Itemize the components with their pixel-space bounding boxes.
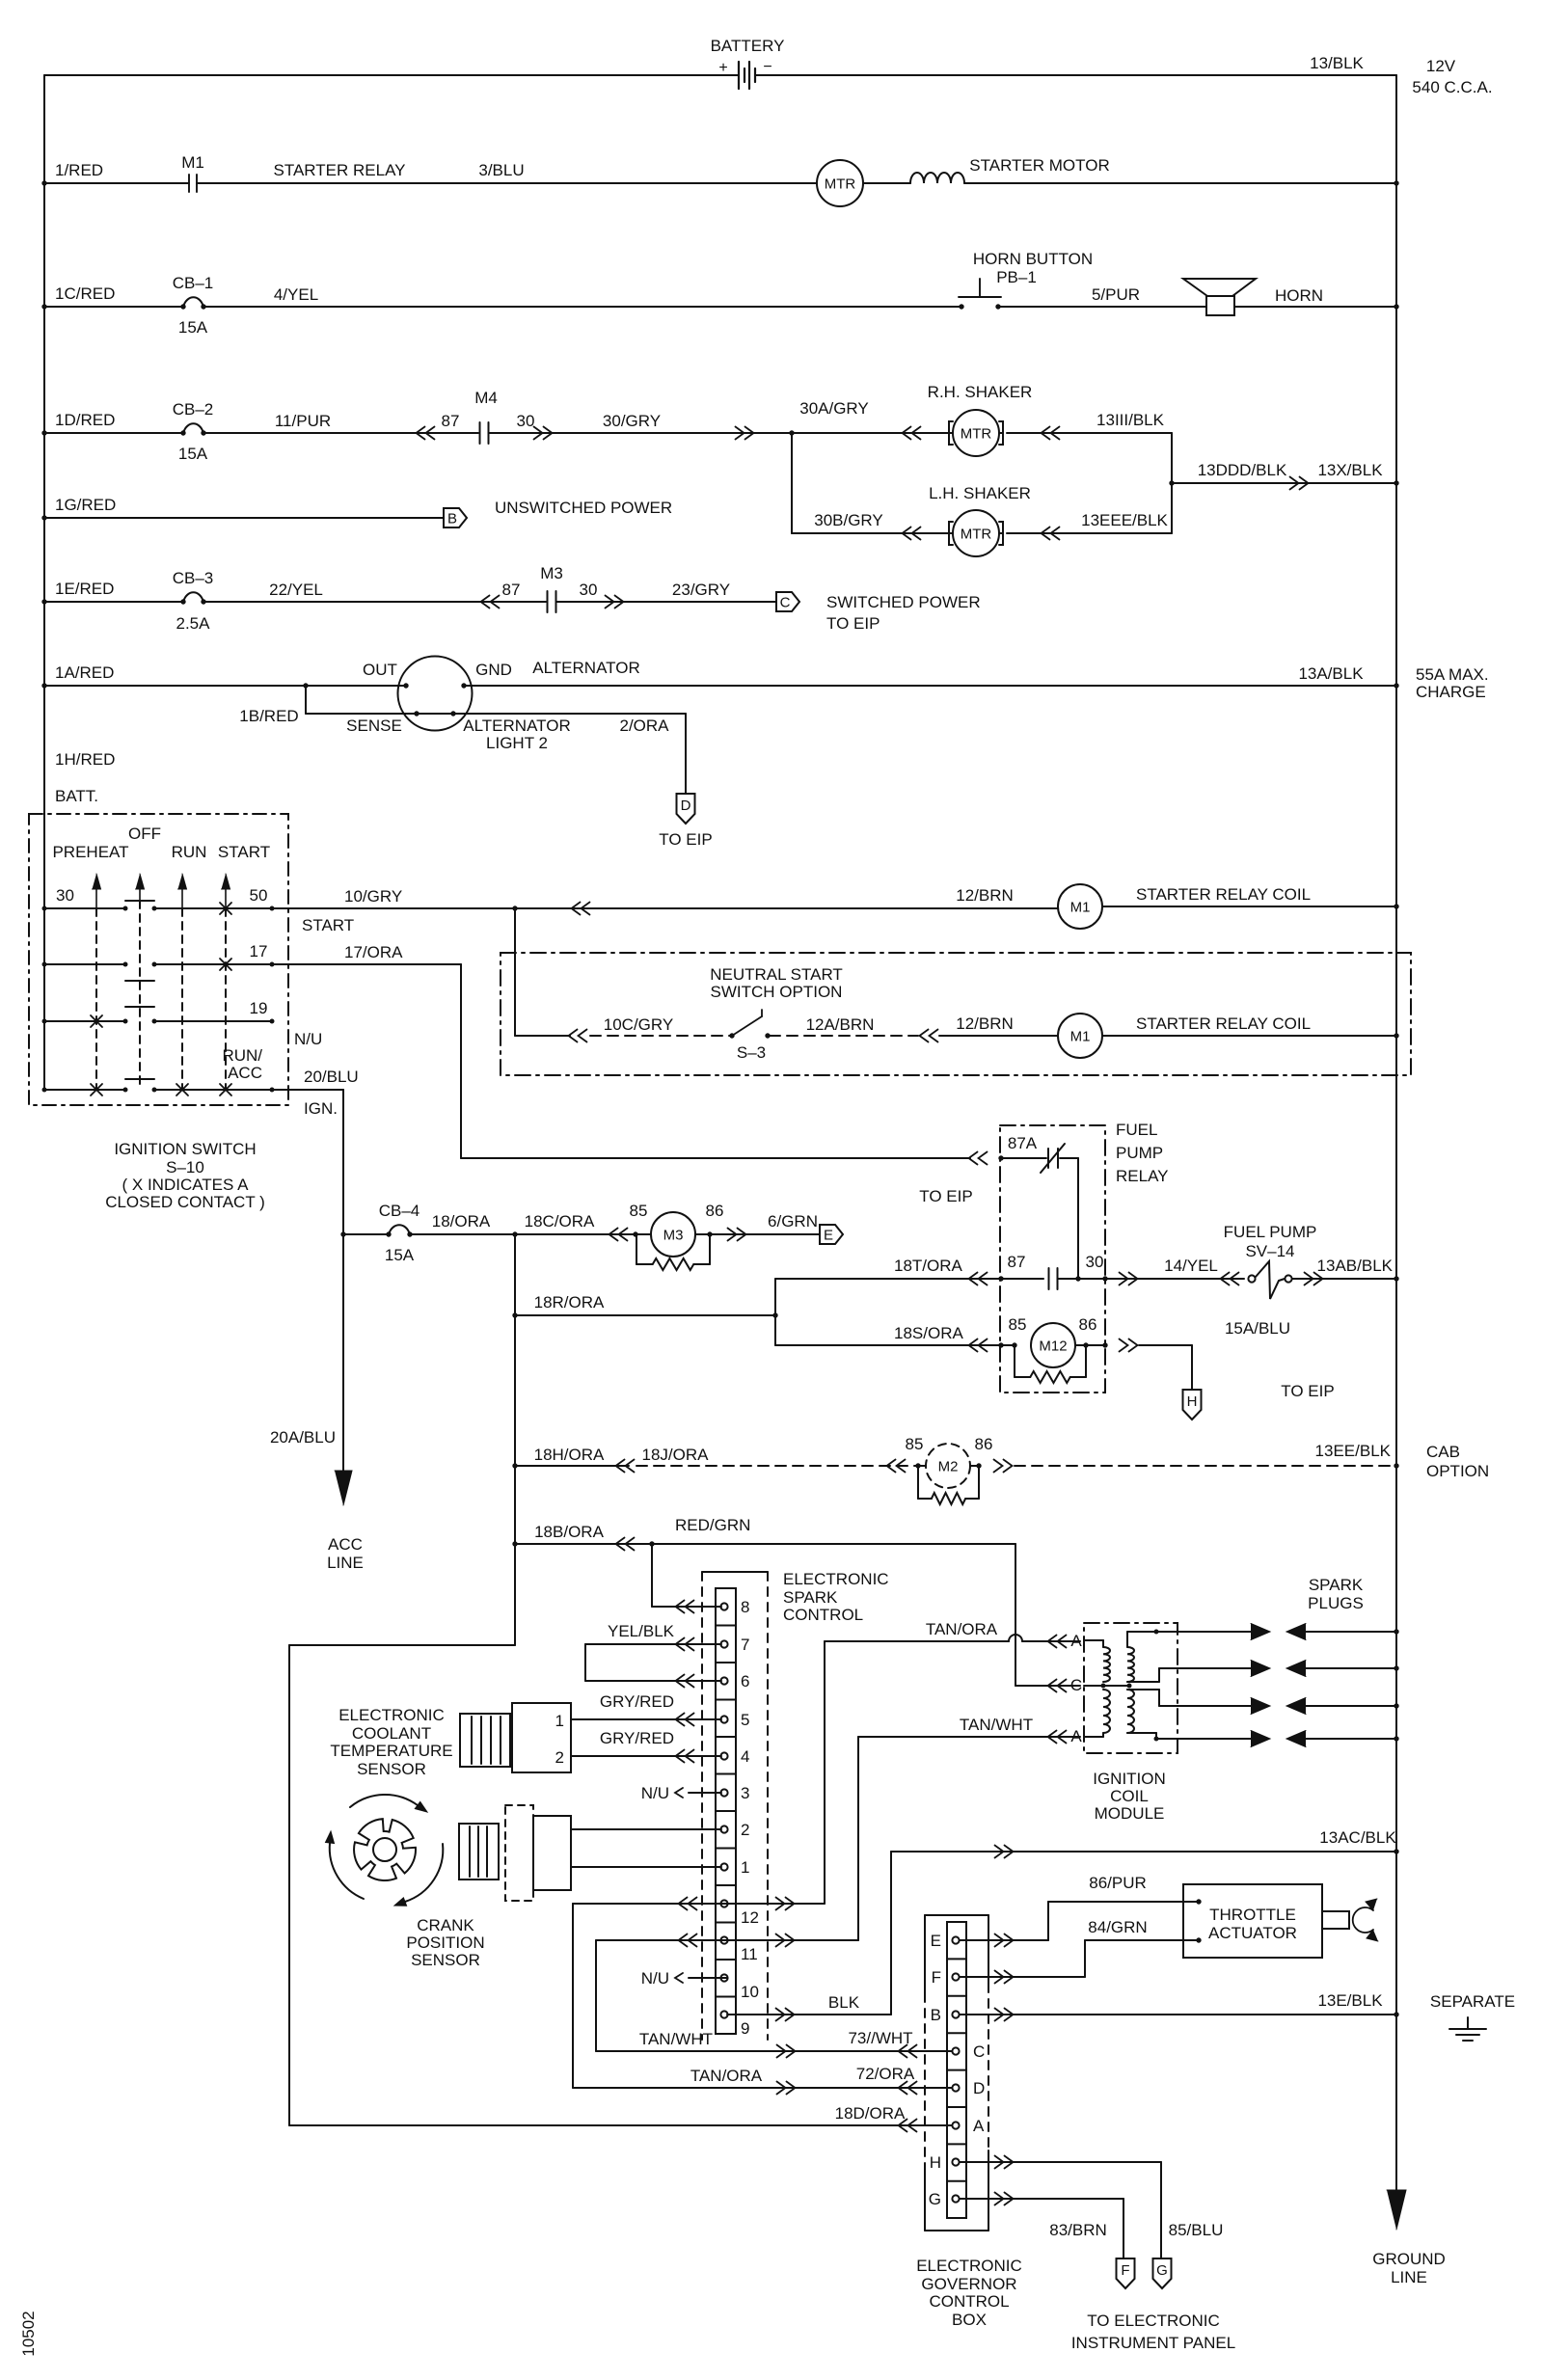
svg-text:ACC: ACC <box>328 1535 363 1554</box>
svg-text:OFF: OFF <box>128 825 161 843</box>
svg-text:D: D <box>681 798 691 814</box>
svg-text:M1: M1 <box>181 153 204 172</box>
svg-text:FUEL PUMP: FUEL PUMP <box>1224 1223 1317 1241</box>
svg-text:CB–1: CB–1 <box>173 274 214 292</box>
svg-text:M12: M12 <box>1039 1339 1067 1355</box>
svg-text:E: E <box>824 1228 833 1244</box>
svg-text:1: 1 <box>741 1858 749 1877</box>
svg-text:CLOSED CONTACT ): CLOSED CONTACT ) <box>105 1193 265 1211</box>
svg-text:H: H <box>930 2153 941 2172</box>
svg-text:13III/BLK: 13III/BLK <box>1096 411 1165 429</box>
svg-text:MTR: MTR <box>961 426 992 443</box>
svg-text:4/YEL: 4/YEL <box>274 285 318 304</box>
svg-text:14/YEL: 14/YEL <box>1164 1257 1218 1275</box>
svg-text:TO EIP: TO EIP <box>826 614 880 633</box>
svg-text:ALTERNATOR: ALTERNATOR <box>532 659 639 677</box>
svg-text:TAN/ORA: TAN/ORA <box>690 2067 763 2085</box>
svg-text:13EE/BLK: 13EE/BLK <box>1315 1442 1392 1460</box>
svg-text:UNSWITCHED POWER: UNSWITCHED POWER <box>495 499 672 517</box>
svg-text:N/U: N/U <box>294 1030 322 1048</box>
svg-text:M3: M3 <box>540 564 563 582</box>
svg-text:OUT: OUT <box>363 661 397 679</box>
svg-text:30: 30 <box>517 412 535 430</box>
svg-text:STARTER RELAY COIL: STARTER RELAY COIL <box>1136 885 1311 904</box>
svg-text:1E/RED: 1E/RED <box>55 580 114 598</box>
svg-text:55A MAX.: 55A MAX. <box>1416 665 1489 684</box>
svg-text:18J/ORA: 18J/ORA <box>642 1446 710 1464</box>
svg-text:22/YEL: 22/YEL <box>269 581 323 599</box>
svg-text:13X/BLK: 13X/BLK <box>1317 461 1383 479</box>
svg-text:18T/ORA: 18T/ORA <box>894 1257 963 1275</box>
svg-text:ACC: ACC <box>228 1064 262 1082</box>
svg-text:20/BLU: 20/BLU <box>304 1068 359 1086</box>
svg-text:TO EIP: TO EIP <box>1281 1382 1334 1400</box>
svg-text:A: A <box>1070 1632 1082 1650</box>
svg-text:BATT.: BATT. <box>55 787 98 805</box>
svg-text:87: 87 <box>442 412 460 430</box>
svg-text:1B/RED: 1B/RED <box>239 707 298 725</box>
svg-text:86: 86 <box>1079 1315 1097 1334</box>
svg-text:SWITCHED POWER: SWITCHED POWER <box>826 593 981 611</box>
svg-text:11/PUR: 11/PUR <box>275 412 331 430</box>
svg-text:18/ORA: 18/ORA <box>432 1212 491 1231</box>
svg-text:SPARK: SPARK <box>783 1588 838 1607</box>
svg-text:30: 30 <box>56 886 74 905</box>
svg-text:PUMP: PUMP <box>1116 1144 1163 1162</box>
svg-text:12: 12 <box>741 1908 759 1927</box>
svg-text:RUN: RUN <box>172 843 207 861</box>
svg-text:73//WHT: 73//WHT <box>848 2029 912 2047</box>
svg-text:E: E <box>931 1932 941 1950</box>
svg-text:BOX: BOX <box>952 2311 987 2329</box>
svg-text:G: G <box>929 2190 941 2208</box>
svg-text:IGNITION: IGNITION <box>1093 1770 1166 1788</box>
svg-text:TO EIP: TO EIP <box>659 830 712 849</box>
svg-text:10/GRY: 10/GRY <box>344 887 402 906</box>
svg-text:18C/ORA: 18C/ORA <box>525 1212 595 1231</box>
svg-text:M3: M3 <box>663 1228 684 1244</box>
svg-text:F: F <box>932 1968 941 1987</box>
svg-text:M2: M2 <box>938 1459 959 1475</box>
svg-text:7: 7 <box>741 1636 749 1654</box>
svg-text:86: 86 <box>975 1435 993 1453</box>
svg-text:3: 3 <box>741 1784 749 1802</box>
svg-text:YEL/BLK: YEL/BLK <box>608 1622 675 1640</box>
svg-text:TO ELECTRONIC: TO ELECTRONIC <box>1087 2312 1220 2330</box>
svg-text:POSITION: POSITION <box>406 1934 484 1952</box>
svg-text:1G/RED: 1G/RED <box>55 496 116 514</box>
svg-text:LINE: LINE <box>1391 2268 1427 2286</box>
svg-text:−: − <box>763 59 771 75</box>
svg-text:N/U: N/U <box>641 1784 669 1802</box>
svg-text:1D/RED: 1D/RED <box>55 411 115 429</box>
svg-text:GRY/RED: GRY/RED <box>600 1692 674 1711</box>
svg-text:30: 30 <box>580 581 598 599</box>
svg-text:SEPARATE: SEPARATE <box>1430 1992 1515 2011</box>
svg-text:1A/RED: 1A/RED <box>55 663 114 682</box>
svg-text:17: 17 <box>250 942 268 960</box>
svg-text:CB–3: CB–3 <box>173 569 214 587</box>
svg-text:+: + <box>718 60 727 76</box>
svg-text:PLUGS: PLUGS <box>1308 1594 1364 1612</box>
svg-text:ALTERNATOR: ALTERNATOR <box>463 717 570 735</box>
svg-text:C: C <box>973 2042 985 2061</box>
svg-text:2.5A: 2.5A <box>176 614 211 633</box>
svg-text:540 C.C.A.: 540 C.C.A. <box>1412 78 1492 96</box>
svg-text:C: C <box>780 595 791 611</box>
svg-text:13AB/BLK: 13AB/BLK <box>1317 1257 1394 1275</box>
svg-text:1/RED: 1/RED <box>55 161 103 179</box>
svg-text:15A: 15A <box>178 445 208 463</box>
svg-text:10502: 10502 <box>19 2311 38 2356</box>
svg-text:SENSOR: SENSOR <box>411 1951 480 1969</box>
svg-text:18D/ORA: 18D/ORA <box>835 2104 906 2123</box>
svg-text:PB–1: PB–1 <box>996 268 1037 286</box>
svg-text:85: 85 <box>906 1435 924 1453</box>
svg-text:IGNITION SWITCH: IGNITION SWITCH <box>114 1140 256 1158</box>
svg-text:COIL: COIL <box>1110 1787 1149 1805</box>
svg-text:6: 6 <box>741 1672 749 1690</box>
svg-text:13/BLK: 13/BLK <box>1310 54 1364 72</box>
svg-text:F: F <box>1121 2262 1129 2279</box>
svg-text:TAN/WHT: TAN/WHT <box>639 2030 713 2048</box>
svg-text:SPARK: SPARK <box>1309 1576 1364 1594</box>
svg-text:1H/RED: 1H/RED <box>55 750 115 769</box>
svg-text:18B/ORA: 18B/ORA <box>534 1523 604 1541</box>
svg-text:M4: M4 <box>474 389 498 407</box>
svg-text:20A/BLU: 20A/BLU <box>270 1428 336 1447</box>
svg-text:17/ORA: 17/ORA <box>344 943 403 961</box>
svg-text:12V: 12V <box>1426 57 1456 75</box>
svg-text:C: C <box>1070 1676 1082 1694</box>
svg-text:5: 5 <box>741 1711 749 1729</box>
svg-text:CONTROL: CONTROL <box>783 1606 863 1624</box>
svg-text:3/BLU: 3/BLU <box>478 161 524 179</box>
svg-text:LIGHT 2: LIGHT 2 <box>486 734 548 752</box>
svg-text:18S/ORA: 18S/ORA <box>894 1324 963 1342</box>
svg-text:A: A <box>973 2117 985 2135</box>
svg-text:L.H. SHAKER: L.H. SHAKER <box>929 484 1031 502</box>
svg-text:CB–2: CB–2 <box>173 400 214 419</box>
svg-text:START: START <box>302 916 354 934</box>
svg-text:CRANK: CRANK <box>417 1916 474 1934</box>
svg-text:M1: M1 <box>1070 900 1091 916</box>
svg-text:STARTER MOTOR: STARTER MOTOR <box>969 156 1109 175</box>
svg-text:D: D <box>973 2079 985 2097</box>
svg-text:THROTTLE: THROTTLE <box>1209 1906 1296 1924</box>
svg-text:SENSE: SENSE <box>346 717 402 735</box>
svg-text:12A/BRN: 12A/BRN <box>806 1015 875 1034</box>
svg-text:50: 50 <box>250 886 268 905</box>
svg-text:STARTER RELAY: STARTER RELAY <box>274 161 406 179</box>
svg-text:GROUND: GROUND <box>1372 2250 1446 2268</box>
svg-text:A: A <box>1070 1727 1082 1745</box>
svg-text:CONTROL: CONTROL <box>929 2292 1009 2311</box>
svg-text:OPTION: OPTION <box>1426 1462 1489 1480</box>
svg-text:2: 2 <box>741 1821 749 1839</box>
svg-text:S–3: S–3 <box>737 1043 766 1062</box>
svg-text:1: 1 <box>555 1712 564 1730</box>
svg-text:LINE: LINE <box>327 1554 364 1572</box>
svg-text:13AC/BLK: 13AC/BLK <box>1319 1828 1396 1847</box>
svg-text:H: H <box>1187 1393 1198 1410</box>
svg-text:18H/ORA: 18H/ORA <box>534 1446 605 1464</box>
svg-text:2/ORA: 2/ORA <box>619 717 669 735</box>
svg-text:BLK: BLK <box>828 1993 860 2012</box>
svg-text:11: 11 <box>741 1945 758 1963</box>
svg-text:ELECTRONIC: ELECTRONIC <box>916 2257 1022 2275</box>
svg-text:MTR: MTR <box>825 176 856 193</box>
svg-text:87: 87 <box>502 581 521 599</box>
svg-text:87: 87 <box>1008 1253 1026 1271</box>
svg-text:1C/RED: 1C/RED <box>55 284 115 303</box>
svg-text:IGN.: IGN. <box>304 1099 338 1118</box>
svg-text:2: 2 <box>555 1748 564 1767</box>
svg-text:19: 19 <box>250 999 268 1017</box>
svg-text:GOVERNOR: GOVERNOR <box>921 2275 1016 2293</box>
svg-text:G: G <box>1156 2262 1168 2279</box>
svg-text:13DDD/BLK: 13DDD/BLK <box>1198 461 1287 479</box>
svg-text:GRY/RED: GRY/RED <box>600 1729 674 1747</box>
svg-text:BATTERY: BATTERY <box>711 37 785 55</box>
svg-text:72/ORA: 72/ORA <box>856 2065 915 2083</box>
svg-text:ELECTRONIC: ELECTRONIC <box>783 1570 889 1588</box>
svg-text:15A: 15A <box>178 318 208 337</box>
svg-text:COOLANT: COOLANT <box>352 1724 431 1743</box>
svg-text:START: START <box>218 843 270 861</box>
svg-text:23/GRY: 23/GRY <box>672 581 730 599</box>
svg-text:13E/BLK: 13E/BLK <box>1317 1991 1383 2010</box>
svg-text:5/PUR: 5/PUR <box>1092 285 1140 304</box>
svg-text:HORN: HORN <box>1275 286 1323 305</box>
svg-text:12/BRN: 12/BRN <box>956 886 1014 905</box>
svg-text:86: 86 <box>706 1202 724 1220</box>
svg-text:87A: 87A <box>1008 1134 1038 1152</box>
svg-text:SWITCH OPTION: SWITCH OPTION <box>711 983 843 1001</box>
svg-text:30: 30 <box>1086 1253 1104 1271</box>
svg-text:HORN BUTTON: HORN BUTTON <box>973 250 1093 268</box>
svg-text:M1: M1 <box>1070 1029 1091 1045</box>
svg-text:N/U: N/U <box>641 1969 669 1988</box>
svg-text:15A/BLU: 15A/BLU <box>1225 1319 1290 1338</box>
svg-text:13EEE/BLK: 13EEE/BLK <box>1081 511 1168 529</box>
svg-text:CB–4: CB–4 <box>379 1202 420 1220</box>
svg-text:18R/ORA: 18R/ORA <box>534 1293 605 1312</box>
svg-text:86/PUR: 86/PUR <box>1089 1874 1147 1892</box>
svg-text:TAN/WHT: TAN/WHT <box>960 1716 1033 1734</box>
svg-text:SENSOR: SENSOR <box>357 1760 426 1778</box>
svg-text:CAB: CAB <box>1426 1443 1460 1461</box>
svg-text:FUEL: FUEL <box>1116 1121 1157 1139</box>
svg-text:85: 85 <box>630 1202 648 1220</box>
svg-text:NEUTRAL START: NEUTRAL START <box>710 965 843 984</box>
svg-text:STARTER RELAY COIL: STARTER RELAY COIL <box>1136 1014 1311 1033</box>
svg-text:GND: GND <box>475 661 512 679</box>
svg-text:ACTUATOR: ACTUATOR <box>1208 1924 1297 1942</box>
svg-text:R.H. SHAKER: R.H. SHAKER <box>928 383 1033 401</box>
svg-text:S–10: S–10 <box>166 1158 204 1176</box>
svg-text:83/BRN: 83/BRN <box>1049 2221 1107 2239</box>
svg-text:SV–14: SV–14 <box>1245 1242 1294 1260</box>
svg-text:TEMPERATURE: TEMPERATURE <box>330 1742 452 1760</box>
svg-text:8: 8 <box>741 1598 749 1616</box>
svg-text:30/GRY: 30/GRY <box>603 412 661 430</box>
svg-text:( X INDICATES A: ( X INDICATES A <box>122 1176 250 1194</box>
svg-text:INSTRUMENT PANEL: INSTRUMENT PANEL <box>1071 2334 1235 2352</box>
svg-text:85: 85 <box>1009 1315 1027 1334</box>
svg-text:4: 4 <box>741 1747 749 1766</box>
svg-text:B: B <box>931 2006 941 2024</box>
svg-text:10: 10 <box>741 1983 759 2001</box>
svg-text:ELECTRONIC: ELECTRONIC <box>338 1706 445 1724</box>
svg-text:TAN/ORA: TAN/ORA <box>926 1620 998 1638</box>
svg-text:RED/GRN: RED/GRN <box>675 1516 750 1534</box>
svg-text:10C/GRY: 10C/GRY <box>604 1015 673 1034</box>
svg-text:PREHEAT: PREHEAT <box>52 843 128 861</box>
svg-text:15A: 15A <box>385 1246 415 1264</box>
svg-text:30A/GRY: 30A/GRY <box>799 399 869 418</box>
svg-text:84/GRN: 84/GRN <box>1088 1918 1147 1936</box>
svg-text:MTR: MTR <box>961 527 992 543</box>
svg-text:CHARGE: CHARGE <box>1416 683 1486 701</box>
svg-text:MODULE: MODULE <box>1095 1804 1165 1823</box>
svg-text:6/GRN: 6/GRN <box>768 1212 818 1231</box>
svg-text:RUN/: RUN/ <box>222 1046 262 1065</box>
svg-text:RELAY: RELAY <box>1116 1167 1169 1185</box>
svg-text:TO EIP: TO EIP <box>919 1187 972 1205</box>
svg-text:9: 9 <box>741 2019 749 2038</box>
svg-text:85/BLU: 85/BLU <box>1169 2221 1224 2239</box>
svg-text:13A/BLK: 13A/BLK <box>1298 664 1364 683</box>
svg-text:30B/GRY: 30B/GRY <box>814 511 883 529</box>
svg-text:B: B <box>447 511 457 527</box>
svg-text:12/BRN: 12/BRN <box>956 1014 1014 1033</box>
